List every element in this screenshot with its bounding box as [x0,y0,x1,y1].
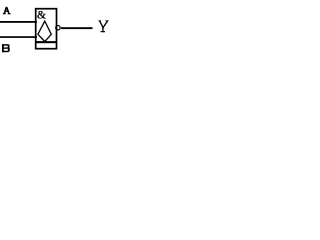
wire A (input) [0,21,37,23]
inversion bubble [56,26,60,30]
background [0,0,110,58]
wire Y (output) [61,27,93,29]
svg-text:&: & [37,10,46,22]
open-collector underbar [36,41,57,43]
label Y [99,21,108,32]
label A [3,7,11,15]
label B [2,44,10,52]
gate U1 NAND open-collector body [36,9,57,49]
wire B (input) [0,36,37,38]
open-collector diamond [38,21,51,41]
